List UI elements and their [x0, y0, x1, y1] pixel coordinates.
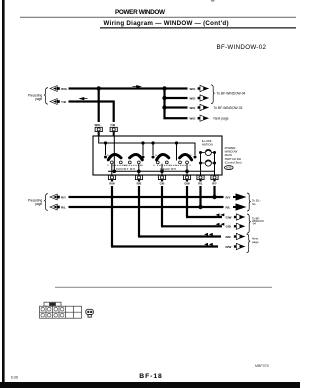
svg-text:REAR RH: REAR RH — [160, 167, 176, 171]
svg-text:R/Y: R/Y — [61, 195, 66, 199]
svg-text:Next page: Next page — [214, 117, 229, 121]
svg-text:MBF975: MBF975 — [255, 364, 269, 368]
svg-text:POWER WINDOW: POWER WINDOW — [115, 9, 166, 16]
svg-text:R/W: R/W — [109, 181, 115, 185]
svg-text:ILL: ILL — [252, 202, 257, 206]
svg-text:G/B: G/B — [226, 225, 232, 229]
svg-text:Y/B: Y/B — [61, 100, 67, 104]
svg-text:R/B: R/B — [137, 181, 142, 185]
svg-text:NATION: NATION — [202, 143, 213, 147]
svg-text:Y/B: Y/B — [110, 123, 116, 127]
svg-text:R/W: R/W — [226, 245, 232, 249]
svg-text:R/B: R/B — [226, 235, 232, 239]
svg-text:page: page — [35, 202, 42, 206]
svg-text:FRONT RH: FRONT RH — [116, 167, 135, 171]
svg-text:R/Y: R/Y — [212, 181, 217, 185]
svg-text:R/L: R/L — [226, 205, 231, 209]
svg-text:W/G: W/G — [190, 87, 197, 91]
svg-text:page: page — [252, 240, 259, 244]
svg-text:R/Y: R/Y — [226, 195, 231, 199]
svg-text:To BF-WINDOW-04: To BF-WINDOW-04 — [217, 92, 246, 96]
svg-text:W/G: W/G — [95, 123, 102, 127]
svg-text:BF-WINDOW-02: BF-WINDOW-02 — [217, 44, 267, 51]
svg-text:G/W: G/W — [184, 181, 190, 185]
svg-text:R/L: R/L — [198, 181, 203, 185]
svg-text:G/W: G/W — [226, 215, 232, 219]
svg-text:W/G: W/G — [190, 106, 197, 110]
svg-text:(Control Box): (Control Box) — [225, 161, 242, 165]
svg-text:M30: M30 — [226, 167, 231, 170]
svg-text:Wiring Diagram — WINDOW — (Con: Wiring Diagram — WINDOW — (Cont'd) — [104, 20, 229, 27]
svg-text:G/B: G/B — [160, 181, 165, 185]
svg-text:-04: -04 — [252, 222, 256, 226]
svg-text:To BF-WINDOW-03: To BF-WINDOW-03 — [214, 106, 243, 110]
svg-text:W/G: W/G — [190, 117, 197, 121]
svg-text:R/L: R/L — [61, 205, 66, 209]
svg-text:W/G: W/G — [190, 96, 197, 100]
svg-text:E36: E36 — [11, 375, 19, 380]
svg-text:BF-18: BF-18 — [139, 373, 162, 380]
svg-text:W/G: W/G — [61, 87, 68, 91]
svg-text:page: page — [35, 97, 42, 101]
